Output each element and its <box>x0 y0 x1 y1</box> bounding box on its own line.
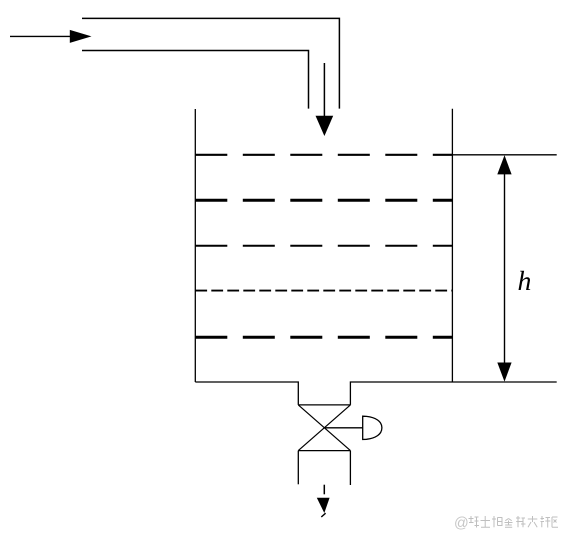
water level dashes row 1 <box>195 154 452 156</box>
watermark glyph 3 <box>492 516 503 527</box>
svg-text:h: h <box>518 266 532 297</box>
svg-text:@: @ <box>454 516 469 532</box>
watermark glyph 1 <box>469 516 480 528</box>
h dimension top arrowhead <box>497 155 511 174</box>
h dimension shaft <box>504 172 506 364</box>
inflow arrow shaft <box>10 35 74 37</box>
watermark glyph 8 <box>552 517 558 527</box>
watermark glyph 7 <box>541 516 551 528</box>
inlet pipe bottom wall <box>82 51 309 109</box>
watermark glyph 6 <box>528 516 538 527</box>
valve actuator head <box>363 416 382 439</box>
upper reference line <box>452 154 556 156</box>
watermark glyph 2 <box>481 516 491 527</box>
valve actuator stem <box>325 427 363 429</box>
tank right wall <box>451 109 453 382</box>
tank bottom left with drain notch <box>195 382 298 405</box>
tank left wall <box>194 109 196 382</box>
valve outlet pipe right <box>349 451 351 485</box>
valve outlet pipe left <box>297 451 299 485</box>
water level dashes row 2 <box>195 199 452 202</box>
watermark glyph 4 <box>505 519 513 528</box>
water level dashes row 3 <box>195 245 452 247</box>
outflow arrow head <box>317 498 330 513</box>
water level dashes row 5 <box>195 336 452 339</box>
watermark glyph 5 <box>516 516 526 527</box>
outflow dashed arrow dash <box>323 485 325 495</box>
inlet flow arrow head <box>316 116 334 136</box>
valve diagonal 1 <box>298 405 350 451</box>
valve body top line <box>298 404 350 406</box>
inlet flow arrow shaft <box>323 63 325 120</box>
inlet pipe top wall <box>82 18 339 108</box>
water level fine dashes row 4 <box>195 290 452 292</box>
h dimension bottom arrowhead <box>497 363 511 382</box>
inflow arrow head <box>70 30 92 43</box>
tank bottom right and lower reference line <box>350 382 556 405</box>
valve diagonal 2 <box>298 405 350 451</box>
valve body bottom line <box>298 450 350 452</box>
outflow arrow tail tick <box>321 513 325 517</box>
